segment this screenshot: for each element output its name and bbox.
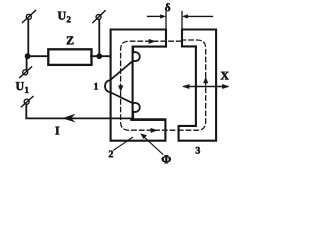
impedance Z box	[48, 49, 91, 65]
wire T3 down and right to coil (current wire)	[26, 105, 133, 119]
core 2 (left C-shaped magnetic core)	[111, 30, 166, 141]
coil 1 (winding on left leg, serpentine)	[105, 47, 140, 119]
flux dashed path in core 3	[179, 40, 206, 130]
gap extension line left	[165, 12, 167, 30]
label U2	[58, 12, 71, 23]
terminal T4 (top-right clamp)	[93, 11, 105, 23]
wire T4 to node B	[98, 20, 100, 57]
flux arrow left leg (points down)	[118, 85, 123, 92]
wire T1 to node A	[27, 20, 29, 57]
flux dashed path in core 2	[121, 41, 181, 130]
node A (junction dot left)	[25, 53, 31, 59]
label I	[55, 127, 59, 135]
node B (junction dot right)	[96, 53, 102, 59]
label 1 (coil)	[94, 83, 98, 90]
dimension arrow left (points right at gap)	[148, 14, 166, 18]
flux arrow bottom arm (points right)	[151, 128, 158, 133]
flux arrow right leg (points up)	[203, 77, 208, 84]
label delta	[165, 3, 170, 11]
core 2 bottom-arm inner edge (thick merged wire/edge)	[132, 118, 166, 121]
displacement arrow X (double headed through armature leg)	[182, 84, 229, 89]
label 3 (armature)	[196, 147, 200, 154]
label Phi (flux) with leader arrow	[140, 133, 171, 163]
terminal T2	[20, 67, 32, 78]
label U1	[16, 82, 29, 93]
wire node A to Z box	[28, 55, 49, 57]
terminal T3 (bottom-left clamp)	[21, 97, 33, 107]
label 2 (left core) with leader	[109, 137, 133, 157]
flux arrow top arm (points right)	[149, 39, 156, 44]
gap extension line right	[181, 12, 183, 30]
wire Z box to node B to core	[91, 55, 110, 57]
wire node A to terminal T2	[26, 56, 28, 69]
core 3 (right armature, mirrored C)	[179, 30, 217, 141]
current arrow I (points left)	[62, 114, 75, 123]
label X	[221, 72, 229, 80]
label Z	[67, 36, 74, 44]
dimension arrow right (points left at gap)	[182, 14, 213, 18]
terminal T1 (top-left clamp)	[23, 10, 36, 22]
